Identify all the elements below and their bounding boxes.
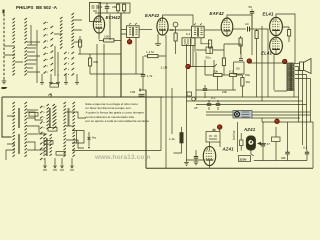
svg-text:1,7k: 1,7k (147, 74, 153, 78)
svg-text:30k: 30k (93, 60, 98, 64)
screen component 450 (288, 30, 291, 37)
wire T2 to V3 (204, 29, 221, 31)
coil L4 (RF coil) (72, 13, 74, 48)
band switch S1 contacts (44, 22, 47, 74)
resistor 20k (AGC) (79, 36, 81, 40)
small rect left of can (240, 140, 244, 146)
coil L1 (aerial coil, primary) (13, 18, 15, 43)
resistor 0,1 (230, 74, 237, 77)
wire V2 top to T2 (163, 15, 194, 26)
cap 1,7k (142, 56, 144, 74)
triode-hexode V1 ECH42 (93, 16, 104, 33)
svg-text:2M: 2M (112, 5, 117, 9)
cap + box 50 right (224, 44, 241, 58)
cap x287.5 (287, 122, 289, 152)
wire AGC rail y54 (78, 53, 121, 55)
coil L7 (54, 106, 56, 128)
svg-text:0,1: 0,1 (303, 146, 308, 150)
svg-text:EL41: EL41 (263, 12, 274, 17)
wire V6 cathode down (186, 159, 205, 161)
wire x166 long drop (165, 46, 167, 168)
choke box under V2 (182, 38, 195, 46)
cap 0,1 (AF) (187, 92, 192, 96)
wire T1 to V2 (139, 29, 152, 31)
switch contacts col3 (40, 106, 43, 160)
wire heater rails through lamp box (206, 111, 310, 113)
svg-text:100: 100 (130, 90, 135, 94)
band switch unit enclosure (2, 90, 163, 168)
wire V2 cathode down (158, 34, 166, 46)
ground stubs inside box (44, 158, 46, 168)
coil L8 (64, 102, 66, 157)
arrow to indicator (257, 142, 261, 145)
svg-text:1,1M: 1,1M (161, 66, 168, 70)
wire V1 anode down (98, 33, 100, 40)
wire x161 drop (box top right) (160, 97, 162, 151)
output V5 EL41 (270, 37, 283, 54)
wire under T2 (195, 38, 210, 52)
svg-text:45 [AZ]: 45 [AZ] (232, 130, 236, 140)
trimmer C (screen) (173, 22, 178, 27)
oscillator unit box (90, 3, 101, 22)
wire box to right (72, 150, 161, 152)
svg-text:0,1: 0,1 (186, 32, 191, 36)
svg-text:ECH42: ECH42 (106, 15, 121, 20)
svg-text:AZ41: AZ41 (243, 127, 256, 132)
wire drops under resistors (218, 77, 234, 91)
small padder box (50, 84, 59, 88)
resistor (screen dropper) (174, 33, 177, 41)
wire V6 top (210, 142, 221, 147)
svg-text:por su aporte a toda la comuni: por su aporte a toda la comunidad de tec… (86, 119, 150, 123)
cap x263 (262, 122, 264, 144)
svg-text:20k: 20k (222, 90, 227, 94)
svg-text:10: 10 (245, 22, 249, 26)
svg-text:www.hora13.com: www.hora13.com (94, 154, 150, 161)
wire B+ rails (right) (251, 13, 253, 55)
wire verticals mid coils (31, 25, 58, 76)
svg-text:47: 47 (267, 142, 271, 146)
wire y122 rail (262, 122, 313, 168)
svg-text:25: 25 (194, 106, 198, 110)
wire V3 top rail (227, 15, 252, 28)
test point TP (V5) (282, 59, 287, 64)
wire y160 rail right (254, 160, 307, 162)
test point TP (volume) (186, 64, 191, 69)
screen resistor x224 (223, 44, 225, 58)
capacitor 0,1 (top row) (106, 3, 108, 6)
resistor 50k (214, 74, 223, 77)
diode load box 50u (206, 47, 213, 53)
taps coil bank B (54, 20, 82, 42)
svg-text:0,1: 0,1 (229, 70, 234, 74)
cathode resistor V3 (239, 38, 242, 46)
coil L5 (13, 102, 15, 157)
resistor detector load (209, 40, 212, 48)
speaker LS (300, 62, 304, 71)
wire x172 drop (171, 88, 173, 134)
wire AZ41 bottom (209, 166, 211, 169)
output transformer T3 winding (286, 63, 288, 91)
wire x121 drop (120, 13, 122, 97)
wire hv rails horizontal (163, 96, 299, 98)
pick-up arrow component (88, 132, 90, 146)
svg-text:EAF42: EAF42 (210, 11, 225, 16)
dial lamp unit (blue label box) (233, 111, 252, 119)
cap on box top edge (139, 94, 145, 96)
staircase wiring inside box (6, 112, 47, 160)
aerial tap mark (48, 93, 52, 97)
resistor 1M vertical (241, 78, 244, 87)
resistor 30k (89, 58, 92, 66)
wire y90 h rail (196, 89, 236, 91)
rectifier V6 AZ41 (203, 146, 215, 165)
test point TP (right) (275, 119, 280, 124)
svg-text:1,1 M: 1,1 M (146, 50, 154, 54)
wire long rail x146 (140, 90, 146, 167)
antenna down-lead wire (3, 14, 5, 78)
svg-text:50: 50 (236, 67, 240, 71)
coil L7b pair (47, 104, 49, 129)
antenna terminal (3, 10, 5, 14)
test point TP (V4 grid) (247, 59, 252, 64)
wire right nest rails (299, 67, 311, 123)
wire transformer bottom leads (274, 91, 294, 97)
IF amp V2 EAF42 (157, 18, 168, 35)
wire rail y13 (95, 12, 130, 14)
cap pair mid (204, 85, 206, 98)
coil L2b lower half (25, 47, 27, 75)
svg-text:Ha: Ha (92, 136, 96, 140)
mains selector box (239, 156, 251, 162)
svg-text:50: 50 (249, 5, 253, 9)
wire loop below text (72, 131, 84, 144)
coil L9 (73, 102, 75, 157)
IF transformer T1 (127, 26, 140, 38)
coil L1b lower half (13, 47, 15, 75)
wire transformer top lead (249, 62, 287, 64)
box 5Y component (272, 137, 281, 142)
cap + ground x196 (195, 150, 197, 156)
wire gang capacitor links (96, 44, 98, 97)
wire speaker leads (294, 63, 300, 65)
ground under V2 cathode (155, 44, 161, 46)
band switch S1 contacts row2 (51, 26, 54, 72)
IF transformer T2 (192, 26, 205, 38)
wire transformer taps (295, 67, 311, 79)
svg-text:EL41: EL41 (261, 51, 272, 56)
resistor R1 (top row) (117, 4, 120, 11)
volume pot wire (191, 38, 217, 67)
svg-text:50u: 50u (245, 73, 250, 77)
coil L2 (aerial coil, secondary) (25, 18, 27, 43)
wire right descents (299, 97, 307, 150)
test point (red) TP1 (129, 37, 131, 40)
padding trimmers inside box (92, 6, 100, 11)
grid resistor 0,5M (255, 31, 258, 39)
svg-text:100: 100 (104, 35, 109, 39)
svg-text:0,1: 0,1 (211, 96, 216, 100)
wire taps coil bank A (4, 45, 37, 68)
wire taps extra (4, 42, 40, 72)
wire x110 drop (109, 14, 111, 40)
bottom rail right (146, 167, 313, 169)
wire top rail y3 (99, 3, 130, 16)
svg-text:EAF42: EAF42 (145, 13, 160, 18)
wire vertical x37 (36, 30, 38, 83)
ground (antenna earth) (3, 78, 5, 81)
wire V4 top (276, 14, 295, 63)
test point TP (rect) (217, 125, 222, 130)
coil L6 (25, 102, 27, 157)
wire taps from L5/L6 (7, 110, 38, 150)
wire x186-188 pair (186, 44, 188, 160)
svg-text:220V: 220V (240, 158, 247, 162)
resistor R2 (top row) (123, 4, 126, 11)
caps row y104 (208, 100, 210, 110)
svg-text:50u: 50u (206, 56, 211, 60)
det/AF amp V3 EAF42 (221, 18, 233, 36)
coil L3 (RF coil) (60, 17, 62, 49)
ground stubs below coils (41, 74, 43, 82)
svg-text:0,1: 0,1 (98, 5, 103, 9)
svg-text:1,1k: 1,1k (169, 137, 175, 141)
coil L10 pair lower (44, 134, 46, 156)
core lines (19, 108, 20, 154)
resistor 100 (osc grid) (104, 39, 115, 42)
wire x196 drop (195, 52, 197, 100)
svg-text:1M: 1M (246, 80, 251, 84)
coupling capacitor 10 (233, 28, 246, 30)
svg-text:PHILIPS BE 502 -A: PHILIPS BE 502 -A (16, 5, 58, 10)
output V4 EL41 (270, 17, 283, 35)
svg-text:AZ41: AZ41 (222, 147, 235, 152)
wire under T1 (135, 37, 137, 74)
resistor 1,1k dark (180, 133, 183, 144)
cap x307 (306, 150, 308, 152)
wire T1 left leads (121, 30, 127, 35)
mains filter box (206, 132, 220, 143)
switch contacts under L3/L4 (64, 52, 67, 76)
ground stub x186 (186, 160, 188, 162)
svg-text:GB: GB (281, 156, 285, 160)
padder boxes (29, 113, 38, 117)
wire V2 anode to T2 (168, 29, 192, 31)
